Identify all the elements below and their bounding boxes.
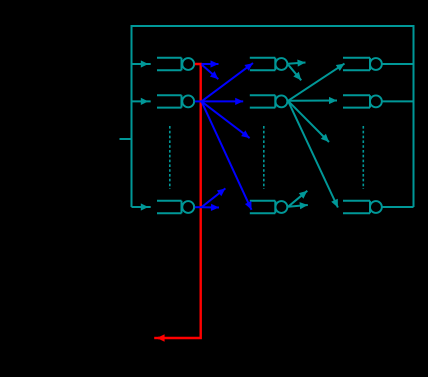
blue arrow U11 down-right bbox=[202, 65, 219, 79]
red feedback arrowhead bbox=[154, 334, 164, 342]
neuron U1n (col1 bottom) bbox=[157, 201, 194, 213]
wire U32 output to bus bbox=[382, 100, 414, 102]
left input tick bbox=[120, 138, 132, 140]
teal arrow U22 to U31 bbox=[288, 64, 345, 101]
neuron U3n (col3 bottom) bbox=[343, 201, 382, 213]
ellipsis dashed line col2 bbox=[263, 126, 265, 189]
input arrow bottom row head bbox=[134, 203, 151, 210]
outer box right edge (output bus) bbox=[413, 25, 415, 207]
wire U1n output stub bbox=[195, 206, 202, 208]
wire U31 output to bus bbox=[382, 63, 414, 65]
ellipsis dashed line col1 bbox=[169, 126, 171, 189]
input arrow row 1 bbox=[133, 60, 151, 67]
teal arrow U22 to U32 bbox=[288, 97, 337, 104]
wire U3n output to bus bbox=[382, 206, 414, 208]
input arrow row 2 bbox=[133, 98, 151, 105]
neuron U2n (col2 bottom) bbox=[250, 201, 288, 213]
blue arrow U1n up-right bbox=[202, 188, 226, 207]
blue arrow U12 to col2 ellipsis bbox=[202, 101, 250, 138]
wire U12 output stub bbox=[195, 100, 202, 102]
neuron U21 (col2 row1) bbox=[250, 58, 288, 70]
neuron U31 (col3 row1) bbox=[343, 58, 382, 70]
teal arrow U21 right bbox=[288, 60, 306, 67]
outer box top edge bbox=[131, 25, 415, 27]
neuron U11 (col1 row1) bbox=[157, 58, 194, 70]
blue arrow U12 to U22 bbox=[202, 98, 244, 105]
input arrow bottom row (from bus corner) bbox=[132, 206, 137, 208]
red feedback wire bbox=[158, 64, 201, 338]
neuron U12 (col1 row2) bbox=[157, 95, 194, 107]
blue arrow U11 right bbox=[202, 60, 219, 67]
teal arrow U2n up-right bbox=[288, 191, 307, 207]
neuron U22 (col2 row2) bbox=[250, 95, 288, 107]
blue arrow U12 to U21 bbox=[202, 63, 254, 101]
ellipsis dashed line col3 bbox=[362, 126, 364, 189]
neuron U32 (col3 row2) bbox=[343, 95, 382, 107]
blue arrow U1n right bbox=[202, 204, 220, 211]
outer box left edge (input bus) bbox=[131, 25, 133, 207]
teal arrow U2n right bbox=[288, 202, 308, 209]
teal arrow U22 to col3 ellipsis bbox=[288, 101, 329, 142]
teal arrow U21 down-right bbox=[288, 65, 301, 81]
teal arrow U22 to U3n bbox=[288, 101, 338, 208]
blue arrow U12 to U2n bbox=[202, 101, 252, 209]
